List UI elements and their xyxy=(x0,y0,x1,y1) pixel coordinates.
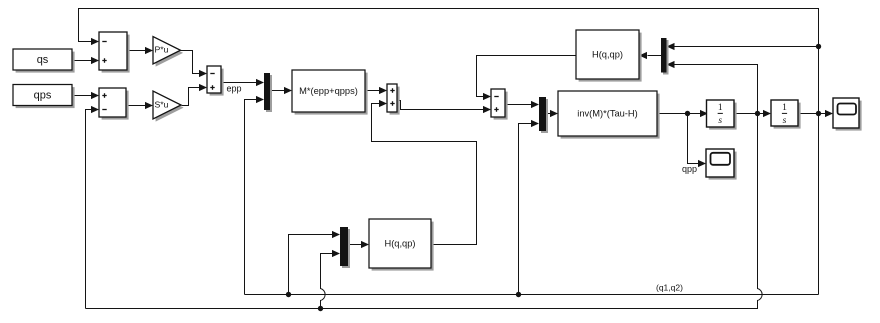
node q junction at integrator 2 output xyxy=(816,111,821,116)
svg-text:P*u: P*u xyxy=(155,45,169,55)
wire sum5 to mux3 first input xyxy=(506,101,540,108)
mux Mux3 xyxy=(539,97,548,133)
wire q bus riser to mux1 second input xyxy=(245,96,265,295)
block inv(M)*(Tau-H) xyxy=(558,91,660,139)
gain block P*u xyxy=(153,37,183,67)
wire sum2 to gain S*u xyxy=(127,102,154,109)
block H2 H(q,qp) xyxy=(369,219,434,271)
source block qs xyxy=(13,49,75,73)
svg-text:M*(epp+qpps): M*(epp+qpps) xyxy=(299,86,358,96)
wire integrator 2 to scope xyxy=(799,110,834,117)
node qpp branch junction xyxy=(685,111,690,116)
sum block Sum5 (minus plus) xyxy=(491,89,508,120)
wire qp feedback from int1 junction up to mux2 second input xyxy=(667,61,758,114)
wire bottom q bus xyxy=(245,294,819,296)
sum block Sum2 (plus minus) xyxy=(99,88,129,120)
wire gain P*u to sum3 minus input xyxy=(181,51,208,78)
wire H2 output to sum4 second plus input xyxy=(372,100,477,245)
svg-text:S*u: S*u xyxy=(155,99,169,109)
wire q bus riser to mux3 second input xyxy=(519,120,540,295)
svg-text:(q1,q2): (q1,q2) xyxy=(656,283,683,293)
svg-text:H(q,qp): H(q,qp) xyxy=(384,238,415,248)
wire mux2 to H1 block xyxy=(639,52,662,59)
wire int2 feedback to mux2 first input xyxy=(667,43,819,50)
wire H1 output to sum5 minus input xyxy=(477,56,577,101)
wire sum3 epp output to mux1 first input xyxy=(222,79,265,86)
wire integrator 1 to integrator 2 xyxy=(736,110,772,117)
wire right feedback vertical x818 from int2 output down to bottom bus xyxy=(818,47,820,295)
svg-text:qs: qs xyxy=(37,54,49,66)
svg-text:inv(M)*(Tau-H): inv(M)*(Tau-H) xyxy=(577,108,637,118)
wire qp feedback from int1 junction down to bottom qp bus with hop xyxy=(321,114,763,309)
sum block Sum1 (minus plus) xyxy=(99,32,130,73)
mux Mux2 xyxy=(661,38,669,75)
gain block S*u xyxy=(153,91,184,122)
wire sum4 to sum5 plus input xyxy=(398,101,492,114)
node qp bus junction to mux4 xyxy=(318,306,323,311)
mux Mux1 xyxy=(264,73,272,112)
wire gain S*u to sum3 plus input xyxy=(182,84,208,106)
wire top feedback from int2 junction to sum1 minus input xyxy=(79,9,819,47)
wire sum1 to gain P*u xyxy=(128,47,154,54)
sum block Sum3 epp (minus plus) xyxy=(207,66,224,96)
node q bus junction to mux3 xyxy=(516,292,521,297)
svg-text:qps: qps xyxy=(34,89,52,101)
svg-text:1: 1 xyxy=(782,103,787,113)
wire bottom qp bus to sum2 minus input xyxy=(86,106,100,309)
source block qps xyxy=(13,85,75,109)
wire qp bus to mux4 second input with hop over q bus xyxy=(321,250,341,309)
integrator block 1/s second xyxy=(771,100,801,129)
scope block qpp xyxy=(706,149,737,180)
wire mux3 to inv block xyxy=(547,110,559,117)
wire bottom qp bus left segment xyxy=(86,308,321,310)
svg-text:s: s xyxy=(718,116,722,126)
block H1 H(q,qp) xyxy=(576,30,642,82)
wire inv block to integrator 1 xyxy=(658,110,709,117)
wire mux1 to M block xyxy=(271,87,293,94)
integrator block 1/s first xyxy=(707,100,737,130)
wire M block to sum4 first plus input xyxy=(366,87,388,94)
wire qpp branch to qpp scope xyxy=(688,114,707,168)
sum block Sum4 (plus plus) xyxy=(387,84,400,115)
svg-text:epp: epp xyxy=(227,84,242,94)
scope block q output xyxy=(833,98,862,131)
svg-text:1: 1 xyxy=(718,103,723,113)
wire q bus to mux4 first input xyxy=(289,231,341,295)
node q feedback junction at mux2 first input xyxy=(816,44,821,49)
svg-text:s: s xyxy=(783,116,787,126)
svg-text:qpp: qpp xyxy=(682,164,697,174)
node q bus junction to mux4 xyxy=(286,292,291,297)
svg-text:H(q,qp): H(q,qp) xyxy=(592,49,623,59)
mux Mux4 xyxy=(340,227,350,268)
wire mux4 to H2 block xyxy=(349,241,370,248)
node qp junction at integrator 1 output xyxy=(755,111,760,116)
wire qs to sum1 plus input xyxy=(73,57,100,64)
block M*(epp+qpps) xyxy=(292,70,368,115)
wire qps to sum2 plus input xyxy=(73,92,100,99)
